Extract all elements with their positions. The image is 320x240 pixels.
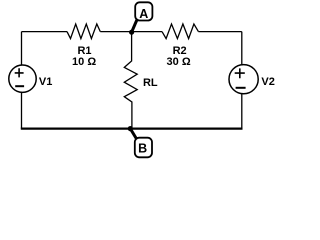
svg-text:10 Ω: 10 Ω bbox=[72, 56, 96, 68]
svg-text:V2: V2 bbox=[261, 76, 274, 88]
svg-text:A: A bbox=[139, 7, 148, 21]
svg-text:30 Ω: 30 Ω bbox=[167, 56, 191, 68]
svg-text:RL: RL bbox=[143, 77, 158, 89]
svg-text:B: B bbox=[138, 141, 147, 155]
svg-text:V1: V1 bbox=[39, 76, 52, 88]
